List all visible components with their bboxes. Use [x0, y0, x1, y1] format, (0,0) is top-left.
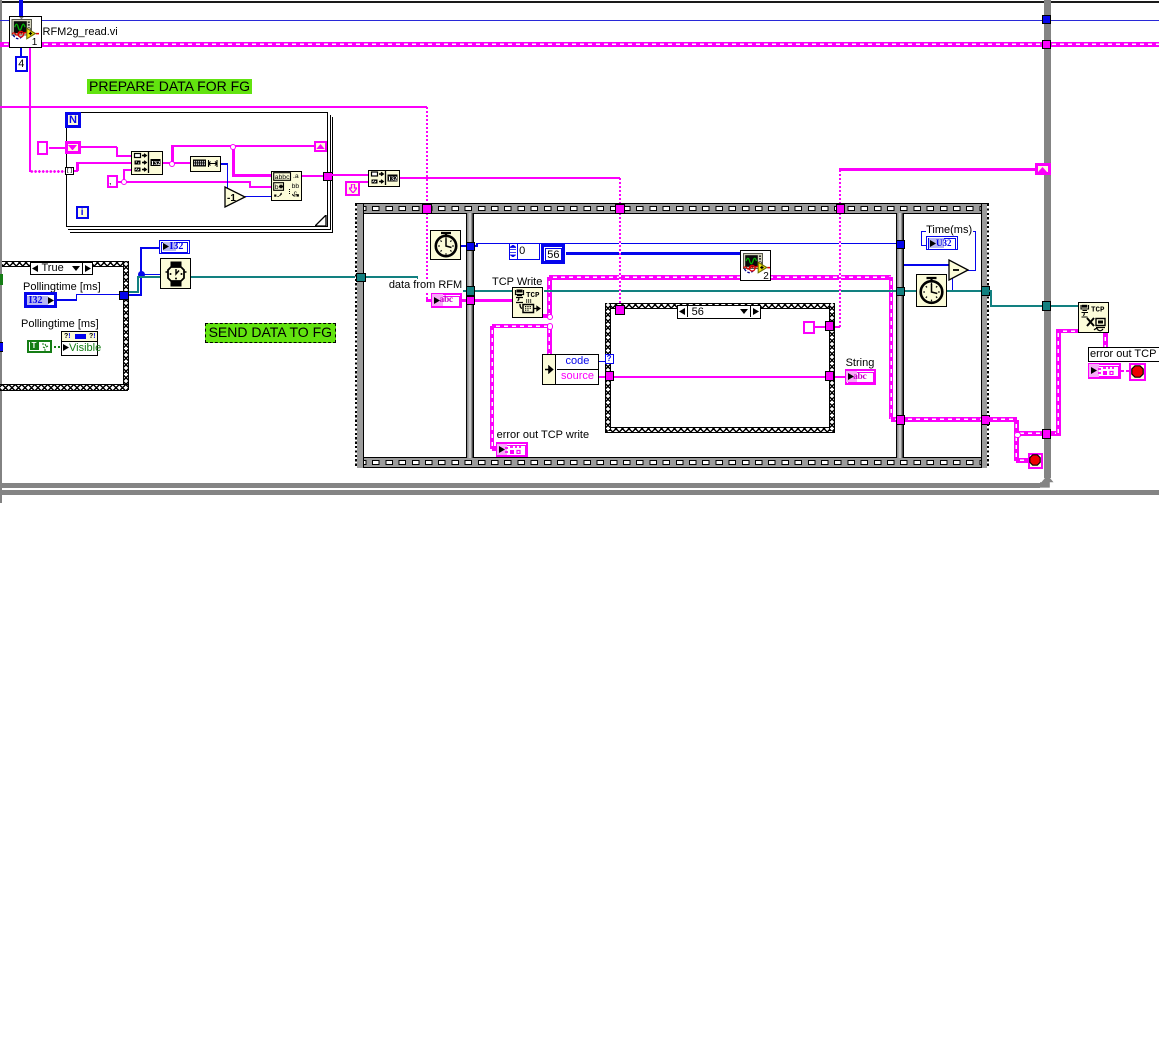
wire: thick blue 56 to chart — [566, 252, 741, 255]
Wait (ms) watch icon — [160, 258, 191, 289]
tunnel: error on divider 2 — [896, 415, 906, 425]
Format Into String node — [131, 151, 163, 176]
inner case border bottom — [605, 427, 835, 433]
wire: error down before divider 2 — [889, 277, 894, 419]
wire: thick blue wire into RFM2g_read from top — [19, 0, 22, 17]
tunnel: string into frame 2 — [615, 204, 625, 214]
wire: blue tick count to tunnel — [461, 245, 468, 247]
auto-index tunnel [] — [65, 167, 74, 175]
inner case border left — [605, 303, 611, 430]
outer while loop left border — [0, 0, 2, 503]
Tick Count clock icon frame1 — [430, 230, 461, 261]
wire: string down in frame1 — [426, 213, 428, 301]
while loop bottom border with iteration arrow — [0, 483, 1040, 488]
tunnel: string out of inner case — [825, 371, 835, 381]
string constant comma — [107, 175, 118, 189]
Decrement node (-1 triangle) — [224, 186, 247, 208]
inner case border top — [605, 303, 835, 309]
label Pollingtime [ms] (control) — [23, 281, 101, 293]
wire: string through inner case — [613, 376, 827, 378]
case border bottom — [0, 384, 128, 391]
wire: tick count 2 to subtract — [947, 290, 953, 292]
wire: thin blue across frame2 — [474, 245, 478, 247]
Unbundle By Name node — [542, 354, 599, 385]
tunnel: string out to shift register — [836, 204, 846, 214]
wire: case out to String indicator — [833, 376, 846, 378]
label String — [846, 357, 875, 369]
while loop right border (gray bar) — [1044, 0, 1051, 478]
tunnel: teal refnum out of sequence — [981, 286, 991, 296]
wire: error left branch to indicator — [492, 324, 550, 329]
wire: string wire horizontal y=107 — [0, 106, 427, 108]
inner case selector 56 — [677, 305, 761, 319]
wire: blue ms count into subtract — [904, 264, 949, 266]
shift register right terminal — [314, 141, 327, 152]
svg-text:abbc: abbc — [274, 174, 290, 181]
label Time(ms) — [926, 224, 973, 236]
case border top — [2, 261, 128, 268]
case selector label True — [30, 262, 93, 275]
wire: Format2 output to sequence — [400, 177, 620, 179]
i iteration terminal — [76, 206, 89, 219]
tunnel: string into frame 1 — [422, 204, 432, 214]
boolean constant T — [27, 340, 52, 353]
junction dots in for loop — [169, 161, 175, 167]
svg-text:TCP: TCP — [1091, 307, 1105, 315]
shift register right terminal on while loop — [1035, 163, 1051, 175]
wire: array-of-strings wire into for loop — [30, 170, 67, 173]
numeric constant 0 — [509, 243, 540, 260]
sequence frame divider 1 — [466, 213, 474, 458]
wire: comma constant to Format row3 and Match Pattern — [118, 181, 124, 183]
flat sequence left border — [355, 204, 363, 468]
for loop border — [66, 112, 328, 227]
I32 control terminal — [24, 292, 57, 308]
N count terminal — [65, 112, 81, 128]
tunnel: teal refnum into sequence — [356, 273, 366, 283]
wire: linefeed const to node — [360, 181, 368, 183]
tunnel: blue ms on divider 2 — [896, 240, 906, 250]
svg-text:I32: I32 — [388, 176, 397, 183]
wire: string wire to shift register — [839, 168, 1035, 170]
shift register: empty string constant feeding it — [37, 141, 48, 155]
wire: error cluster wire across top — [0, 42, 1159, 47]
tunnel: blue ms on divider 1 — [466, 242, 476, 252]
loop output tunnel (magenta square) — [323, 172, 333, 181]
tunnel: error through while loop border — [1042, 429, 1052, 439]
TCP Close icon — [1078, 302, 1109, 333]
property node Visible — [61, 331, 98, 356]
TCP Write icon — [512, 287, 543, 318]
wire: tunnel to Format Into String 2 — [331, 174, 368, 176]
wire: I32 control to tunnel — [56, 299, 77, 301]
wire: empty const to tunnel — [815, 326, 826, 328]
tunnel: teal refnum on divider 1 — [466, 286, 476, 296]
flat sequence right border — [981, 204, 989, 468]
wire: string down to inner case tunnel — [619, 213, 621, 307]
wire: blue from tunnel up to wait-ms and I32 indicator — [129, 294, 142, 296]
wire: dashes to stop button — [1121, 370, 1130, 372]
tunnel: string on divider 1 — [466, 296, 476, 306]
svg-text:bb: bb — [291, 183, 299, 190]
wire: teal TCP refnum wire — [129, 291, 139, 293]
wire: error up branch from TCP Write — [547, 277, 552, 318]
tunnel: error on while loop border — [1042, 40, 1052, 50]
stop button 1 — [1028, 453, 1044, 469]
tunnel: string into inner case — [615, 305, 625, 315]
tunnel: empty string out of inner case — [825, 321, 835, 331]
I32 indicator above wait — [159, 240, 190, 254]
String indicator — [845, 369, 876, 385]
wire: unbundle source out — [597, 376, 608, 378]
wire: teal TCP refnum frame 3 — [904, 290, 982, 292]
tunnel: error out of sequence — [981, 415, 991, 425]
wire: green dotted to property node — [54, 346, 61, 348]
U32 indicator — [926, 236, 958, 250]
Tick Count clock icon frame3 — [916, 274, 947, 307]
cut-off blue terminal on left edge — [0, 342, 3, 352]
label data from RFM — [388, 279, 463, 292]
wire: case out up to top tunnel — [833, 326, 840, 328]
constant 4 — [15, 56, 29, 72]
junction: error wire split — [1014, 432, 1021, 439]
wire: error down from TCP close — [1103, 333, 1108, 348]
wire: blue numeric wire across top — [0, 20, 1159, 21]
wire: error through frame 3 — [904, 417, 982, 422]
tunnel: teal refnum through while loop border — [1042, 301, 1052, 311]
stop button 2 — [1129, 363, 1146, 381]
tunnel: source string into inner case — [605, 371, 615, 381]
inner case selector terminal ? — [605, 354, 614, 364]
tunnel: teal refnum on divider 2 — [896, 287, 906, 297]
inner case border right — [829, 303, 835, 430]
label error out TCP write — [497, 429, 590, 441]
wire: unbundle code out — [597, 361, 605, 363]
string indicator abc (data from RFM) — [431, 293, 462, 309]
empty string constant in case — [803, 321, 815, 334]
wire: teal in frame2 — [474, 290, 513, 292]
wire: string to TCP write — [474, 299, 513, 301]
String Length node — [190, 156, 221, 172]
sequence frame divider 2 — [896, 213, 904, 458]
wire: subtract result to U32 indicator — [967, 270, 976, 272]
label RFM2g_read.vi — [43, 26, 118, 38]
wire: string wire down into sequence frame 1 — [426, 107, 428, 206]
svg-text:.a: .a — [293, 173, 299, 180]
svg-text:b: b — [274, 184, 278, 191]
wire: error down branch to unbundle — [547, 325, 552, 356]
wire: String Length out (blue) — [221, 163, 228, 165]
tunnel: blue on while loop border — [1042, 15, 1052, 25]
svg-text:TCP: TCP — [526, 292, 540, 300]
wire: error horizontal to frame 3 — [549, 275, 891, 280]
wire: decrement out (blue) — [245, 196, 272, 198]
error out TCP write indicator — [496, 442, 529, 457]
flat sequence bottom border — [355, 457, 988, 468]
wire: to String Length — [172, 162, 191, 164]
wire: array tunnel to Format Into String row2 — [73, 170, 78, 172]
junction: error wire — [547, 314, 554, 321]
Format Into String node 2 — [368, 170, 400, 187]
label SEND DATA TO FG — [205, 323, 336, 344]
svg-text:1: 1 — [32, 37, 38, 46]
flat sequence top border — [355, 203, 988, 214]
outer while loop top border — [0, 1, 1159, 3]
wire: blue wire from RFM2g_read to constant 4 — [20, 47, 22, 57]
case border right — [123, 261, 130, 390]
linefeed constant — [345, 181, 360, 196]
wire: error from sequence to stop and TCP close — [989, 417, 1017, 422]
Match Pattern node — [271, 171, 302, 201]
wire: teal to TCP close — [989, 290, 992, 292]
numeric constant 56 — [541, 244, 565, 264]
shift register left terminal — [65, 141, 81, 154]
page curl bottom-right of loop — [315, 215, 327, 227]
wire: string to data-from-RFM indicator and tunnel — [426, 299, 467, 301]
outer structure bottom border (full width) — [0, 490, 1159, 495]
svg-text:I32: I32 — [151, 160, 160, 167]
label error out TCP close — [1088, 347, 1159, 362]
error out TCP close indicator — [1088, 363, 1121, 379]
waveform chart subVI icon 2 — [740, 250, 771, 281]
label Pollingtime [ms] (property) — [21, 318, 99, 330]
wire: Format Into String output — [163, 162, 173, 164]
wire: shift reg left to Format Into String row1 — [80, 146, 117, 148]
wire: string wire from RFM2g_read down — [29, 47, 31, 172]
wire: teal in frame1 — [366, 276, 418, 278]
wire: Match Pattern output to tunnel — [302, 175, 324, 177]
cut-off green terminal on left edge — [0, 274, 3, 286]
tunnel: blue on case border — [119, 291, 129, 301]
label TCP Write — [492, 276, 542, 288]
for loop stacked shadow borders — [70, 117, 333, 233]
svg-text:2: 2 — [763, 271, 769, 280]
Subtract node — [948, 259, 969, 281]
label PREPARE DATA FOR FG — [87, 79, 252, 95]
wire: error net around TCP Write — [543, 314, 550, 319]
svg-text:-1: -1 — [227, 193, 236, 204]
